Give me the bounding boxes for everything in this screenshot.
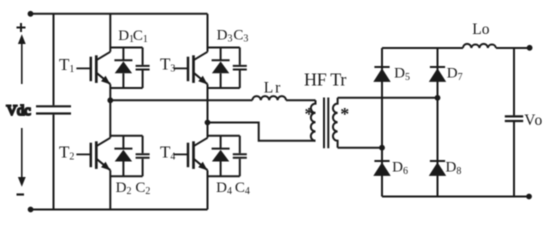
- svg-text:D2C2: D2C2: [116, 180, 151, 197]
- svg-text:D3C3: D3C3: [217, 28, 249, 45]
- transformer HF Tr primary winding: [311, 100, 316, 141]
- source Vdc plus sign: [17, 23, 26, 32]
- diode D6: [373, 161, 390, 176]
- diode D5: [373, 67, 390, 82]
- svg-text:*: *: [340, 104, 349, 124]
- wire Lo to output terminal: [496, 47, 530, 49]
- svg-text:Lr: Lr: [264, 80, 282, 97]
- node rectifier right mid junction: [435, 95, 441, 101]
- inductor Lr: [252, 96, 286, 100]
- svg-text:D8: D8: [446, 160, 462, 178]
- wire T3 emitter to node B: [207, 84, 209, 122]
- svg-text:D4C4: D4C4: [216, 180, 250, 197]
- wire node A to Lr: [110, 99, 252, 101]
- wire secondary bottom to rectifier left leg: [338, 147, 382, 149]
- svg-text:T1: T1: [59, 55, 74, 75]
- svg-text:T2: T2: [59, 143, 74, 163]
- diode D2 and capacitor C2 box: [110, 136, 149, 177]
- source Vdc down arrow: [21, 128, 23, 177]
- diode D3 and capacitor C3 box: [208, 48, 247, 89]
- wire rectifier left leg: [381, 48, 383, 197]
- wire T2 emitter to bottom rail: [109, 170, 111, 209]
- svg-text:D5: D5: [394, 66, 410, 84]
- node B junction dot: [205, 120, 211, 126]
- svg-text:Lo: Lo: [472, 21, 489, 38]
- svg-text:*: *: [305, 104, 314, 124]
- wire primary bottom to node B: [208, 123, 316, 141]
- transistor T4: [174, 138, 208, 171]
- wire T3 collector to top rail: [207, 14, 209, 52]
- transformer core: [324, 98, 328, 149]
- wire T4 emitter to bottom rail: [207, 170, 209, 209]
- capacitor input (dc link): [53, 14, 55, 106]
- transistor T2: [76, 138, 110, 171]
- diode D1 and capacitor C1 box: [110, 48, 149, 89]
- wire bottom rail (primary bridge): [31, 209, 208, 211]
- node bottom-left junction: [28, 207, 34, 213]
- wire T1 emitter to node A: [109, 84, 111, 100]
- wire T1 collector to top rail: [109, 14, 111, 52]
- wire top rail (primary bridge): [31, 13, 208, 15]
- node output terminal plus: [527, 45, 533, 51]
- transistor T1: [76, 52, 110, 85]
- svg-text:T3: T3: [160, 55, 175, 75]
- diode D7: [429, 67, 446, 82]
- diode D4 and capacitor C4 box: [208, 136, 247, 177]
- svg-text:HF Tr: HF Tr: [304, 70, 346, 90]
- node A junction dot: [107, 97, 113, 103]
- wire T2 collector to node A: [109, 100, 111, 138]
- wire secondary top to rectifier right leg: [338, 97, 438, 99]
- source Vdc up arrow: [21, 42, 23, 84]
- svg-text:D7: D7: [447, 66, 463, 84]
- inductor Lo: [463, 44, 496, 48]
- svg-text:Vdc: Vdc: [7, 103, 31, 119]
- svg-text:D6: D6: [392, 160, 408, 178]
- wire Lr to transformer primary: [286, 99, 316, 101]
- node rectifier left mid junction: [379, 145, 385, 151]
- transistor T3: [174, 52, 208, 85]
- svg-text:D1C1: D1C1: [118, 28, 148, 45]
- svg-text:T4: T4: [160, 143, 175, 163]
- wire rectifier top rail to Lo: [382, 47, 463, 49]
- svg-text:Vo: Vo: [524, 112, 543, 129]
- node output terminal minus: [526, 194, 532, 200]
- wire T4 collector to node B: [207, 123, 209, 138]
- diode D8: [429, 161, 446, 176]
- wire rectifier right leg: [437, 48, 439, 197]
- capacitor output Vo: [513, 48, 515, 115]
- node top-left junction: [28, 11, 34, 17]
- transformer secondary winding: [333, 98, 338, 148]
- wire rectifier bottom rail: [382, 196, 529, 198]
- source Vdc minus sign: [17, 193, 25, 195]
